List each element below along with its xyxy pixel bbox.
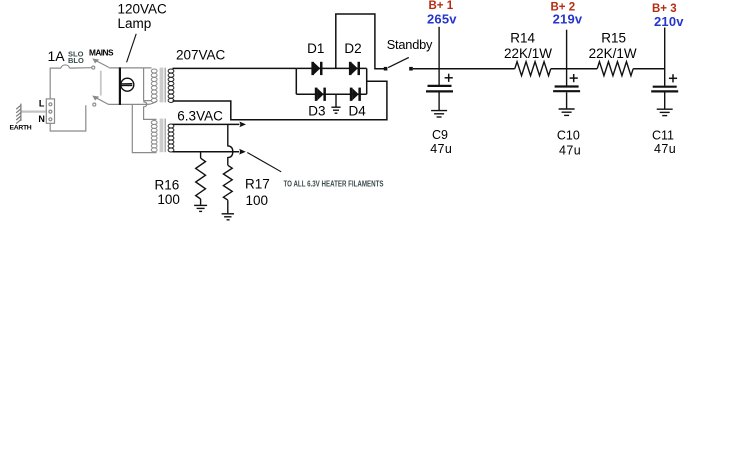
wire N-side to bottom coil bottom [132, 104, 156, 152]
wire 6.3VAC top with arrow [173, 123, 240, 125]
svg-text:R14: R14 [510, 30, 535, 45]
switch gang link [100, 71, 102, 96]
bridge rectifier frame [296, 68, 366, 94]
capacitor C10 plus sign [570, 74, 578, 82]
transformer T1 207VAC secondary winding [168, 69, 174, 103]
svg-text:Standby: Standby [387, 37, 433, 52]
wire 6.3VAC bottom with arrow [173, 151, 240, 153]
svg-text:R17: R17 [245, 177, 270, 192]
standby switch right terminal [409, 67, 413, 71]
node B+2 drop wire [566, 30, 568, 86]
svg-text:C9: C9 [432, 128, 448, 142]
resistor R17 100 [223, 165, 232, 213]
svg-text:L: L [39, 99, 45, 109]
wire 207VAC top to bridge [173, 67, 297, 69]
C11 ground [657, 93, 673, 116]
svg-text:D1: D1 [307, 41, 324, 56]
lamp box left edge [119, 67, 121, 105]
switch pole 1 blade with arrow [93, 59, 108, 67]
svg-text:B+ 1: B+ 1 [429, 0, 454, 12]
switch pole 1 fixed contact [92, 66, 95, 69]
C9 ground [431, 93, 447, 118]
svg-text:47u: 47u [654, 142, 676, 156]
standby switch left terminal [384, 67, 388, 71]
C10 ground [559, 92, 575, 115]
svg-text:47u: 47u [430, 142, 452, 156]
wire R17 drop with hop over bottom wire [228, 124, 233, 165]
svg-text:120VAC: 120VAC [118, 1, 168, 16]
fuse F1 1A SLO BLO [61, 65, 70, 68]
svg-text:D2: D2 [344, 41, 361, 56]
wire bridge output loop to standby [336, 14, 384, 69]
svg-text:6.3VAC: 6.3VAC [177, 109, 223, 124]
wire N to switch pole 2 [50, 105, 86, 131]
svg-text:N: N [38, 114, 45, 124]
svg-text:47u: 47u [559, 143, 581, 157]
standby switch blade [388, 57, 409, 67]
svg-text:Lamp: Lamp [118, 16, 152, 31]
svg-text:1A: 1A [48, 48, 66, 64]
diode D1 [311, 62, 322, 75]
svg-text:22K/1W: 22K/1W [589, 46, 637, 61]
pilot lamp [121, 78, 134, 91]
node B+3 drop wire [664, 28, 666, 86]
capacitor C11 plus sign [669, 74, 677, 82]
B+ rail [413, 68, 665, 70]
wire L to fuse [50, 68, 61, 99]
node B+1 drop wire [438, 27, 440, 85]
switch pole 2 fixed contact [93, 103, 96, 106]
wire earth to terminal block [22, 110, 47, 112]
svg-text:C11: C11 [652, 129, 674, 143]
terminal block TB1 [46, 99, 54, 123]
svg-text:D3: D3 [308, 104, 325, 119]
capacitor C9 plus sign [445, 74, 453, 82]
switch pole 2 blade with arrow [93, 96, 108, 104]
leader line from Lamp label [127, 34, 137, 63]
wire 207VAC bottom return [173, 81, 387, 120]
diode D2 [349, 62, 360, 75]
wire primary top coil to bottom coil with hop [144, 101, 157, 120]
leader line to heater filaments note [247, 153, 281, 172]
bridge center ground [331, 94, 340, 113]
arrow 6.3VAC bottom [239, 149, 246, 155]
diode D3 [315, 88, 326, 101]
resistor R16 100 [196, 152, 206, 205]
svg-text:B+ 3: B+ 3 [652, 3, 677, 15]
svg-text:R16: R16 [155, 177, 180, 192]
transformer T1 primary top winding [151, 69, 157, 103]
svg-text:EARTH: EARTH [10, 125, 32, 132]
R17 ground [222, 214, 234, 220]
transformer T1 primary bottom winding [151, 120, 157, 151]
svg-text:100: 100 [157, 192, 180, 207]
wire lamp box bottom with curl to primary [147, 101, 157, 104]
lamp box right edge [143, 68, 145, 101]
R16 ground [194, 205, 207, 211]
svg-text:MAINS: MAINS [89, 48, 114, 58]
svg-text:TO ALL 6.3V HEATER FILAMENTS: TO ALL 6.3V HEATER FILAMENTS [284, 179, 385, 188]
arrow 6.3VAC top [239, 122, 246, 128]
wire pole2 to lamp box bottom [108, 103, 146, 105]
svg-text:207VAC: 207VAC [176, 48, 226, 63]
wire fuse to switch pole 1 [70, 67, 92, 69]
resistor R14 22K/1W [515, 62, 551, 76]
svg-text:219v: 219v [553, 11, 583, 26]
capacitor C10 47u [553, 87, 580, 92]
transformer core bottom section [160, 119, 166, 153]
svg-text:R15: R15 [601, 30, 626, 45]
svg-text:100: 100 [246, 193, 269, 208]
svg-text:BLO: BLO [68, 56, 84, 65]
svg-text:D4: D4 [349, 104, 367, 119]
resistor R15 22K/1W [597, 62, 633, 76]
transformer core top section [160, 68, 166, 103]
capacitor C11 47u [651, 87, 678, 92]
svg-text:C10: C10 [557, 129, 580, 143]
capacitor C9 47u [426, 86, 453, 92]
transformer T1 6.3VAC heater winding [168, 124, 174, 152]
svg-text:210v: 210v [654, 14, 684, 29]
svg-text:265v: 265v [427, 12, 457, 27]
diode D4 [350, 88, 361, 101]
wire pole1 to lamp box [109, 67, 152, 69]
svg-text:22K/1W: 22K/1W [504, 46, 552, 61]
earth symbol [16, 104, 21, 124]
